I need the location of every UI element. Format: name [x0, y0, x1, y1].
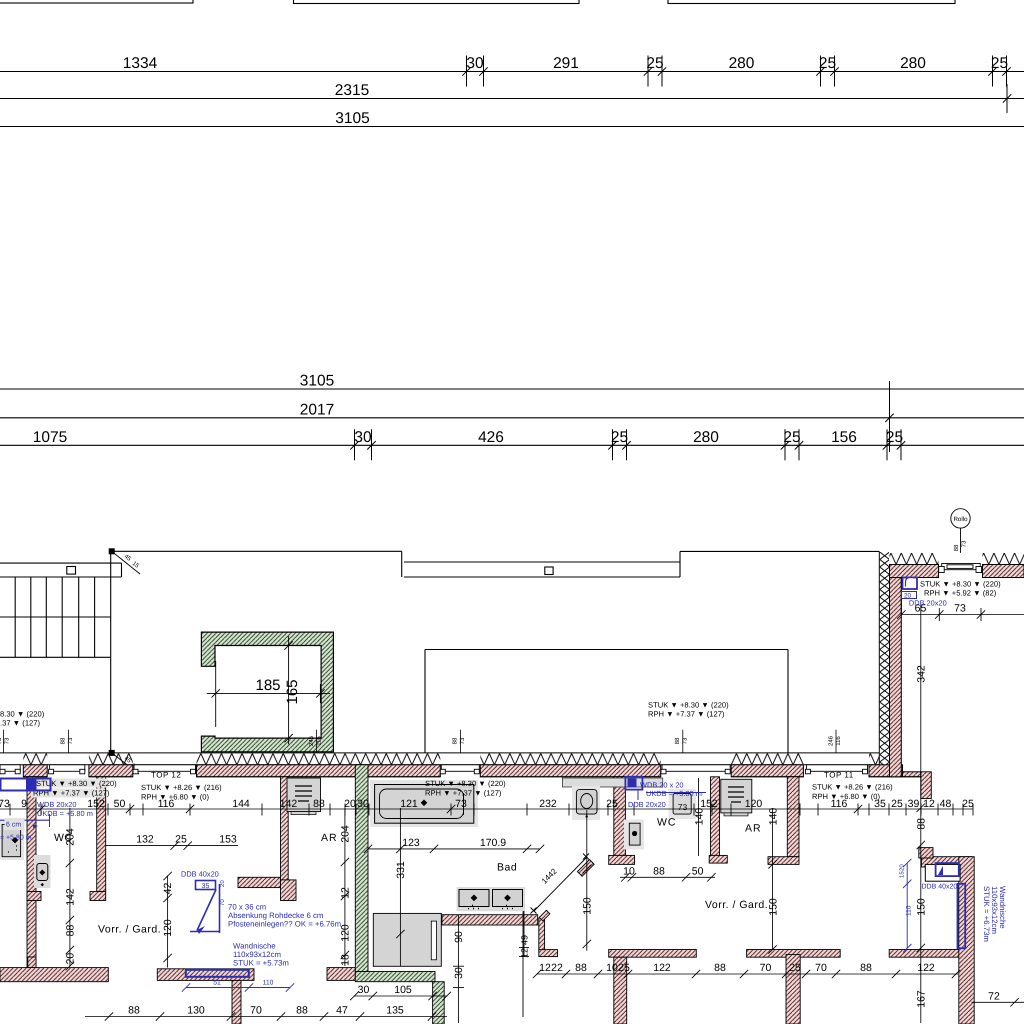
- WC dim line 132/25/153: [106, 841, 238, 849]
- svg-text:TOP 11: TOP 11: [824, 771, 854, 780]
- svg-text:204: 204: [340, 825, 352, 843]
- svg-text:20: 20: [65, 953, 77, 965]
- svg-text:50: 50: [114, 798, 126, 810]
- parapet band: [404, 561, 680, 563]
- svg-text:232: 232: [539, 798, 557, 810]
- svg-text:88: 88: [653, 865, 665, 877]
- wall WC-right: [97, 777, 106, 892]
- STUK text gray backs: [34, 779, 108, 788]
- svg-text:342: 342: [916, 665, 928, 683]
- Bad dim line 123/170.9: [364, 845, 544, 853]
- svg-text:RPH ▼ +5.92 ▼ (82): RPH ▼ +5.92 ▼ (82): [924, 589, 997, 598]
- table cell 3: [668, 0, 955, 4]
- svg-text:20: 20: [219, 880, 226, 887]
- svg-text:UKDB = +5.80 m: UKDB = +5.80 m: [37, 809, 93, 818]
- svg-text:135: 135: [386, 1005, 404, 1017]
- svg-text:30: 30: [357, 798, 369, 810]
- dim line 1075-row: [0, 444, 1024, 446]
- svg-text:280: 280: [693, 429, 719, 446]
- svg-text:12: 12: [520, 948, 530, 958]
- svg-text:3105: 3105: [335, 110, 369, 127]
- svg-text:130: 130: [187, 1005, 205, 1017]
- STUK text blocks: [0, 580, 1001, 802]
- right exterior wall: vertical insulation: [879, 551, 889, 776]
- svg-text:25: 25: [646, 55, 663, 72]
- svg-text:120: 120: [745, 798, 763, 810]
- wall Bad-WC2: [614, 777, 626, 856]
- svg-text:120: 120: [162, 919, 174, 937]
- svg-text:88: 88: [860, 962, 872, 974]
- svg-text:73: 73: [678, 802, 688, 812]
- svg-text:120: 120: [340, 924, 352, 942]
- fixture WM-2: [721, 779, 752, 813]
- vert chain x167: [163, 872, 171, 968]
- window W1: [0, 765, 868, 774]
- svg-text:48: 48: [940, 798, 952, 810]
- svg-text:STUK ▼ +8.30 ▼ (220): STUK ▼ +8.30 ▼ (220): [36, 779, 117, 788]
- stair landing: [0, 562, 122, 564]
- ticks row1: [466, 56, 468, 87]
- svg-text:142: 142: [65, 888, 77, 906]
- svg-text:47: 47: [336, 1005, 348, 1017]
- svg-text:STUK ▼ +8.30 ▼ (220): STUK ▼ +8.30 ▼ (220): [425, 779, 506, 788]
- window W2: [50, 765, 85, 772]
- svg-text:73: 73: [0, 798, 10, 810]
- svg-text:73: 73: [4, 737, 11, 744]
- svg-text:165: 165: [284, 679, 301, 704]
- svg-text:STUK = +6.73m: STUK = +6.73m: [982, 886, 991, 942]
- svg-text:STUK = +5.73m: STUK = +5.73m: [233, 959, 289, 968]
- svg-text:25: 25: [962, 798, 974, 810]
- svg-text:156: 156: [831, 429, 857, 446]
- svg-text:122: 122: [917, 962, 935, 974]
- svg-text:30: 30: [358, 984, 370, 996]
- svg-text:1334: 1334: [123, 55, 158, 72]
- exterior wall top: masonry red segments: [23, 765, 921, 777]
- parapet square: [545, 567, 553, 575]
- svg-text:STUK ▼ +8.26 ▼ (216): STUK ▼ +8.26 ▼ (216): [812, 783, 893, 792]
- wall WC-left: [27, 777, 36, 968]
- svg-text:291: 291: [553, 55, 579, 72]
- svg-text:3105: 3105: [300, 373, 334, 390]
- dim line 2017: [0, 417, 1024, 419]
- svg-text:1075: 1075: [33, 429, 67, 446]
- svg-text:88: 88: [65, 925, 77, 937]
- svg-text:25: 25: [606, 798, 618, 810]
- svg-text:88: 88: [452, 737, 459, 744]
- svg-text:88: 88: [313, 798, 325, 810]
- main interior dim line: [0, 804, 973, 816]
- dim 65/73 right: [897, 608, 1024, 621]
- svg-text:15: 15: [899, 871, 906, 878]
- hall wall diag area: [539, 918, 545, 950]
- svg-text:280: 280: [900, 55, 926, 72]
- fixture lintel gray: [562, 778, 663, 787]
- pillar right: [921, 772, 932, 799]
- svg-text:88: 88: [60, 737, 67, 744]
- window top-right: [939, 564, 982, 573]
- svg-text:70: 70: [760, 962, 772, 974]
- svg-text:12: 12: [340, 887, 352, 899]
- svg-text:73: 73: [455, 798, 467, 810]
- svg-text:AR: AR: [321, 832, 338, 844]
- blue wc2 annotation: [625, 777, 642, 800]
- svg-text:WDB 20x20: WDB 20x20: [37, 800, 76, 809]
- svg-text:246: 246: [828, 735, 835, 746]
- node annotation 45/12 bottom: [112, 753, 139, 774]
- svg-text:88: 88: [915, 818, 927, 830]
- window W6: [806, 765, 867, 772]
- svg-text:150: 150: [581, 897, 593, 915]
- svg-text:RPH ▼ +7.37 ▼ (127): RPH ▼ +7.37 ▼ (127): [648, 710, 725, 719]
- blue wandnische bar: [186, 970, 249, 977]
- fixture toilet WC2: [624, 820, 644, 850]
- interior walls red: [0, 772, 974, 1024]
- blue window left edge: [0, 779, 51, 829]
- svg-text:TOP 12: TOP 12: [151, 771, 181, 780]
- blue corner top right: [902, 578, 918, 599]
- svg-text:73: 73: [67, 737, 74, 744]
- svg-text:20: 20: [344, 798, 356, 810]
- vert chain x458: [453, 915, 464, 1023]
- svg-text:110: 110: [263, 980, 274, 987]
- svg-text:70: 70: [815, 962, 827, 974]
- svg-text:30: 30: [466, 55, 484, 72]
- svg-text:280: 280: [729, 55, 755, 72]
- svg-text:25: 25: [783, 429, 800, 446]
- svg-text:72: 72: [988, 990, 1000, 1002]
- svg-text:121: 121: [400, 798, 418, 810]
- vert chain x400: [396, 808, 404, 966]
- bottom walls center: [609, 950, 697, 958]
- bottom dim 72: [972, 998, 1024, 1006]
- door diagonal wall pieces: [577, 860, 594, 877]
- svg-text:88: 88: [296, 1005, 308, 1017]
- vert chain x587: [583, 810, 591, 951]
- wall top tick pairs: [3, 730, 836, 753]
- right niche walls: [921, 857, 971, 867]
- blue niche Z left: [190, 881, 220, 935]
- svg-text:73: 73: [0, 737, 3, 744]
- balcony outline top: [112, 550, 402, 552]
- svg-text:Pfosteneinlegen?? OK = +6.76m: Pfosteneinlegen?? OK = +6.76m: [228, 920, 341, 929]
- svg-text:142: 142: [280, 798, 298, 810]
- svg-text:30: 30: [354, 429, 372, 446]
- svg-text:AR: AR: [745, 823, 762, 835]
- svg-text:88: 88: [714, 962, 726, 974]
- svg-text:25: 25: [618, 962, 630, 974]
- svg-text:73: 73: [961, 540, 968, 547]
- svg-text:DDB 40x20: DDB 40x20: [922, 884, 958, 891]
- wall AR-right: [281, 777, 289, 880]
- svg-text:STUK ▼ +8.30 ▼ (220): STUK ▼ +8.30 ▼ (220): [920, 580, 1001, 589]
- vert chain 49/12: [519, 911, 529, 957]
- svg-text:30: 30: [453, 967, 465, 979]
- svg-text:25: 25: [886, 429, 903, 446]
- door swing diagonal: [523, 854, 589, 1018]
- svg-text:= +5.80 m: = +5.80 m: [0, 835, 32, 842]
- svg-text:153: 153: [219, 834, 237, 846]
- tick row2 right: [1006, 84, 1008, 113]
- svg-text:25: 25: [789, 962, 801, 974]
- vert chain x777: [768, 808, 776, 954]
- svg-text:70: 70: [250, 1005, 262, 1017]
- svg-text:20: 20: [899, 864, 906, 871]
- svg-text:331: 331: [395, 861, 407, 879]
- svg-text:73: 73: [459, 737, 466, 744]
- ticks mid row3: [354, 429, 356, 460]
- bottom dim hall: [533, 970, 960, 978]
- chimney dim 165: [288, 636, 290, 744]
- svg-text:88: 88: [674, 737, 681, 744]
- svg-text:49: 49: [520, 935, 530, 945]
- svg-text:.37 ▼ (127): .37 ▼ (127): [0, 719, 40, 728]
- window W3: [134, 765, 196, 772]
- svg-text:185: 185: [255, 677, 280, 694]
- svg-text:25: 25: [819, 55, 836, 72]
- svg-text:116: 116: [316, 736, 323, 746]
- table cell 1: [0, 0, 193, 3]
- svg-text:42: 42: [162, 883, 174, 895]
- svg-text:Vorr. / Gard.: Vorr. / Gard.: [98, 924, 161, 936]
- svg-text:73: 73: [954, 603, 966, 615]
- rollo circle: [951, 509, 970, 528]
- wall WC2-AR2: [711, 777, 720, 856]
- svg-text:51: 51: [213, 980, 221, 987]
- svg-text:140: 140: [694, 808, 706, 826]
- svg-text:150: 150: [915, 898, 927, 916]
- svg-text:WC: WC: [657, 817, 677, 829]
- svg-text:132: 132: [136, 834, 154, 846]
- fixture sink WC2: [572, 786, 600, 820]
- svg-text:122: 122: [653, 962, 671, 974]
- svg-text:DDB 20x20: DDB 20x20: [628, 800, 666, 809]
- fixture WC1 small: [34, 855, 51, 888]
- vert chain x70: [66, 808, 74, 970]
- svg-text:25: 25: [611, 429, 628, 446]
- svg-text:12: 12: [539, 962, 551, 974]
- vert chain x921 labels: [917, 804, 925, 953]
- exterior wall top: insulation zigzag segments: [0, 753, 879, 765]
- svg-text:73: 73: [682, 737, 689, 744]
- svg-text:167: 167: [915, 990, 927, 1008]
- window W4: [441, 765, 479, 772]
- svg-text:18: 18: [340, 954, 352, 966]
- svg-text:150: 150: [768, 898, 780, 916]
- svg-text:RPH ▼ +6.80 ▼ (0): RPH ▼ +6.80 ▼ (0): [141, 793, 209, 802]
- green walls: [355, 765, 444, 1024]
- svg-text:22: 22: [551, 962, 563, 974]
- dim line 3105: [0, 126, 1024, 128]
- svg-text:39: 39: [908, 798, 920, 810]
- room rect bad: [425, 649, 788, 651]
- svg-text:35: 35: [202, 883, 210, 890]
- stair treads: [0, 616, 111, 618]
- svg-text:88: 88: [128, 1005, 140, 1017]
- niche black rect right: [925, 864, 960, 881]
- vert chain x701: [698, 778, 700, 856]
- svg-text:25: 25: [175, 834, 187, 846]
- svg-text:Vorr. / Gard.: Vorr. / Gard.: [705, 899, 768, 911]
- right exterior wall: top insulation band: [890, 564, 1024, 566]
- svg-text:9: 9: [21, 798, 27, 810]
- svg-text:6 cm: 6 cm: [6, 822, 21, 829]
- vert chain x345: [341, 808, 349, 966]
- stair wall line: [110, 551, 112, 753]
- svg-text:123: 123: [402, 837, 420, 849]
- fixture bathtub: [370, 780, 478, 827]
- fixture shower: [373, 913, 441, 966]
- svg-text:140: 140: [768, 808, 780, 826]
- svg-text:2315: 2315: [335, 82, 369, 99]
- fixture cistern 73: [669, 789, 697, 819]
- interior face line segments: [23, 776, 921, 778]
- vert dim 342: [920, 605, 922, 1023]
- svg-text:116: 116: [835, 736, 842, 746]
- bottom walls left: [0, 968, 108, 982]
- svg-text:DDB 20x20: DDB 20x20: [909, 599, 947, 608]
- fixture WM-1: [287, 778, 321, 812]
- WC2 dim line 10/88/50: [620, 873, 716, 881]
- svg-text:STUK ▼ +8.30 ▼ (220): STUK ▼ +8.30 ▼ (220): [648, 701, 729, 710]
- bottom dim 30/105: [350, 992, 451, 1000]
- svg-text:90: 90: [453, 931, 465, 943]
- svg-text:2017: 2017: [300, 402, 334, 419]
- right exterior wall: masonry: [890, 565, 1024, 777]
- svg-text:DDB 40x20: DDB 40x20: [181, 870, 219, 879]
- svg-text:88: 88: [575, 962, 587, 974]
- table cell 2: [294, 0, 580, 4]
- svg-text:144: 144: [232, 798, 250, 810]
- bottom dim long left: [85, 1012, 447, 1020]
- svg-text:170.9: 170.9: [480, 837, 506, 849]
- svg-text:105: 105: [394, 984, 412, 996]
- svg-text:25: 25: [891, 798, 903, 810]
- long tick 2017: [889, 381, 891, 452]
- svg-text:110: 110: [906, 905, 913, 916]
- svg-text:25: 25: [991, 55, 1008, 72]
- dim line 2315: [0, 98, 1024, 100]
- svg-text:WC: WC: [54, 832, 73, 844]
- gray note 6cm: [5, 818, 25, 830]
- chimney green C: [201, 632, 333, 752]
- dim line 3105-row1: [0, 71, 1024, 73]
- svg-text:Bad: Bad: [497, 862, 517, 874]
- node annotation 45/15 top: [112, 551, 140, 574]
- svg-text:10: 10: [606, 962, 618, 974]
- svg-text:8.30 ▼ (220): 8.30 ▼ (220): [0, 710, 45, 719]
- svg-text:10: 10: [623, 865, 635, 877]
- svg-text:245: 245: [308, 735, 315, 746]
- svg-text:RPH ▼ +7.37 ▼ (127): RPH ▼ +7.37 ▼ (127): [425, 789, 502, 798]
- svg-text:Rollo: Rollo: [953, 516, 968, 523]
- window W5: [662, 765, 730, 772]
- svg-text:426: 426: [478, 429, 504, 446]
- svg-text:70: 70: [219, 899, 226, 906]
- chimney dim 185: [207, 636, 330, 744]
- svg-text:UKDB = +5.80 m: UKDB = +5.80 m: [646, 789, 702, 798]
- svg-text:50: 50: [692, 865, 704, 877]
- svg-text:RPH ▼ +6.80 ▼ (0): RPH ▼ +6.80 ▼ (0): [812, 792, 880, 801]
- fixture counter basins: [457, 887, 526, 911]
- landing square: [67, 567, 76, 575]
- svg-text:STUK ▼ +8.26 ▼ (216): STUK ▼ +8.26 ▼ (216): [141, 783, 222, 792]
- fixture WC1 tall: [0, 820, 24, 860]
- wall AR2-right: [787, 777, 799, 857]
- dim line 3105 mid: [0, 388, 1024, 390]
- svg-text:88: 88: [953, 544, 960, 551]
